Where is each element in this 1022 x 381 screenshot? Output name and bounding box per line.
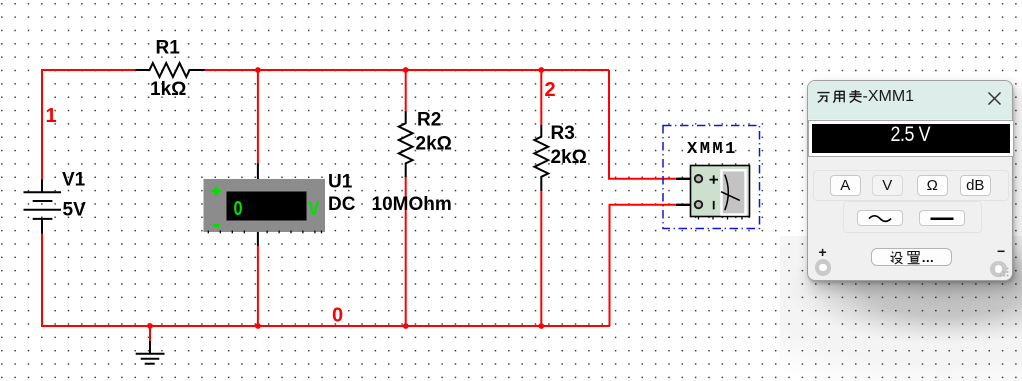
plus label [819, 244, 827, 260]
svg-text:2: 2 [545, 79, 556, 101]
junction R3 top node 2 [538, 67, 544, 73]
svg-text:0: 0 [332, 305, 343, 327]
wire: XMM1 minus lead to bottom rail [610, 205, 678, 326]
svg-text:V: V [308, 198, 320, 220]
svg-text:1: 1 [46, 105, 57, 127]
glyph 表 [848, 89, 863, 104]
button AC (sine) [857, 210, 903, 226]
group frame row1 [813, 170, 1009, 201]
U1 bottom lead [257, 232, 259, 246]
U1 minus mark [213, 224, 219, 227]
minus label [997, 243, 1005, 259]
group frame row2 [843, 201, 982, 234]
settings button 设置... [871, 248, 952, 266]
svg-text:2kΩ: 2kΩ [416, 134, 452, 155]
battery V1 [24, 180, 62, 234]
wire: R2 top drop [405, 70, 407, 112]
svg-text:R2: R2 [417, 110, 441, 131]
glyph 万 [816, 89, 831, 104]
dialog drop shadow blob [780, 236, 1022, 381]
resize grip [999, 267, 1009, 277]
button dB [960, 175, 992, 196]
wire: top horizontal right of R1 [203, 69, 609, 71]
svg-text:0: 0 [234, 198, 243, 220]
svg-text:2kΩ: 2kΩ [551, 147, 587, 168]
resistor R1 symbol [136, 63, 205, 77]
junction ground bottom [147, 323, 153, 329]
ground [136, 341, 165, 364]
wire: right vertical node2 down to XMM1 + lead [609, 70, 677, 179]
wire: U1 bottom drop [257, 246, 259, 326]
XMM1 minus sign (vertical bar) [713, 201, 715, 210]
junction U1 bottom [255, 323, 261, 329]
wire: V1 bottom to bottom rail [41, 233, 43, 327]
svg-text:10MOhm: 10MOhm [372, 194, 452, 215]
button DC (dash) [919, 210, 965, 226]
button Ω [917, 175, 949, 196]
wire: R3 bottom drop [540, 191, 542, 327]
glyph 设 [889, 250, 904, 265]
XMM1 lead plus (black) [676, 178, 695, 180]
svg-text:1kΩ: 1kΩ [150, 79, 186, 100]
XMM1 selection box (blue dash-dot) [663, 126, 760, 229]
svg-text:DC: DC [328, 194, 356, 215]
XMM1 body green box [691, 166, 750, 217]
button A [830, 175, 862, 196]
XMM1 meter needle [721, 192, 740, 201]
svg-text:XMM1: XMM1 [687, 140, 738, 159]
XMM1 plus terminal [695, 175, 702, 182]
resistor R3 symbol [534, 125, 548, 191]
svg-text:R1: R1 [156, 38, 181, 59]
junction node1-U1 top [255, 67, 261, 73]
minus terminal [990, 261, 1007, 278]
junction R3 bottom [538, 323, 544, 329]
button V [872, 175, 904, 196]
svg-text:U1: U1 [328, 172, 353, 193]
wire: R2 bottom drop [405, 177, 407, 327]
wire: ground stub red [149, 326, 151, 342]
XMM1 plus sign [710, 175, 719, 183]
junction R2 bottom [403, 323, 409, 329]
svg-text:5V: 5V [63, 200, 87, 221]
U1 bottom pin ticks [208, 231, 321, 234]
wire: left vertical from node1 to V1 [41, 69, 43, 180]
wire: bottom rail net 0 [41, 325, 610, 327]
XMM1 meter arc [725, 175, 729, 211]
junction R2 top [403, 67, 409, 73]
dialog close button [987, 91, 1002, 106]
dialog reading display [808, 120, 1014, 157]
U1 plus mark [212, 186, 222, 195]
plus terminal [815, 259, 832, 276]
wire: top horizontal net 1-2 [42, 69, 137, 71]
svg-text:V1: V1 [62, 170, 86, 191]
dialog title bar [808, 81, 1012, 119]
XMM1 minus terminal [695, 201, 702, 208]
glyph 置 [906, 250, 921, 265]
glyph 用 [832, 89, 847, 104]
XMM1 bottom pin ticks [699, 217, 743, 220]
wire: R3 top drop [540, 70, 542, 126]
U1 display [227, 192, 307, 221]
resistor R2 symbol [399, 112, 413, 178]
U1 top lead [257, 164, 259, 180]
XMM1 lead minus (black) [676, 204, 695, 206]
multimeter dialog 万用表-XMM1 [807, 80, 1013, 281]
voltmeter U1 body [204, 179, 326, 232]
svg-text:R3: R3 [551, 123, 575, 144]
wire: U1 top drop [257, 70, 259, 164]
XMM1 meter window [722, 170, 746, 214]
